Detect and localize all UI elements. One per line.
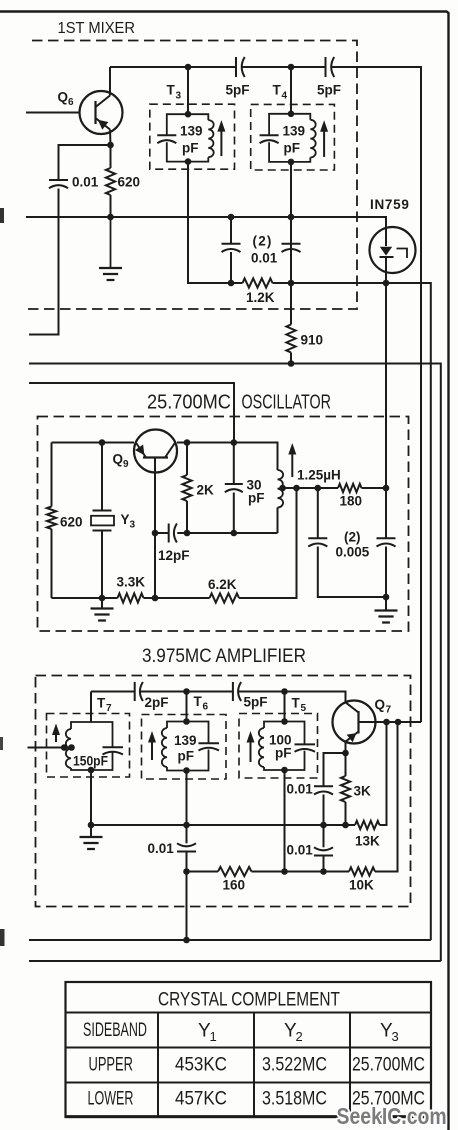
svg-text:3.975MC AMPLIFIER: 3.975MC AMPLIFIER bbox=[142, 644, 306, 666]
node 533 line at base bbox=[152, 530, 159, 537]
transformer T7 tank box bbox=[71, 722, 113, 770]
node 871 rail 0.01 branch bbox=[320, 868, 327, 875]
T4 tank coil bbox=[310, 120, 315, 158]
T6 tuning arrow bbox=[151, 737, 153, 760]
capacitor 0.01 mixer bypass bbox=[59, 145, 111, 180]
svg-text:25.700MC: 25.700MC bbox=[147, 392, 231, 414]
wire 940 bus line bbox=[29, 939, 431, 941]
node top rail T4 bbox=[288, 64, 295, 71]
svg-text:1: 1 bbox=[210, 1029, 217, 1044]
node 940 bus bbox=[183, 937, 190, 944]
node top rail 2K bbox=[184, 439, 191, 446]
wire T5 bottom long branch down bbox=[284, 770, 286, 872]
resistor 1.2K (series in 283 rail) bbox=[243, 278, 273, 287]
wire 825 ground rail bbox=[91, 824, 355, 826]
svg-text:9: 9 bbox=[123, 459, 129, 470]
wire T6 branch down to 940 bus bbox=[186, 872, 188, 941]
capacitor 5pF first (series on top rail) bbox=[236, 57, 245, 77]
svg-text:3: 3 bbox=[176, 91, 182, 102]
page edge artifact 2 bbox=[0, 737, 3, 750]
resistor 620 oscillator bbox=[51, 443, 53, 507]
svg-text:0.005: 0.005 bbox=[336, 545, 370, 560]
node bottom rail crystal/ground bbox=[99, 595, 106, 602]
wire Q7 base line to right rail bbox=[359, 721, 422, 723]
T7 tank capacitor (right edge) bbox=[103, 746, 124, 748]
capacitor (2) 0.01 right bbox=[290, 217, 292, 244]
svg-text:910: 910 bbox=[301, 333, 324, 348]
capacitor 0.01 on T6 branch bbox=[177, 843, 196, 851]
node 283 rail left cap bbox=[228, 280, 235, 287]
capacitor 5pF (series in 691 rail) bbox=[233, 682, 241, 701]
ground amplifier bbox=[90, 825, 92, 837]
node 871 rail T6 branch bbox=[183, 868, 190, 875]
svg-text:0.01: 0.01 bbox=[287, 782, 314, 797]
node 363 rail at 910 bbox=[288, 360, 295, 367]
svg-text:1ST MIXER: 1ST MIXER bbox=[58, 19, 135, 37]
T6 tank capacitor (right edge) bbox=[199, 742, 220, 744]
node base line 10K bbox=[395, 719, 402, 726]
inductor 1.25uH coil bbox=[278, 470, 284, 508]
node 217 rail at 620 bbox=[107, 214, 114, 221]
capacitor 30pF bbox=[233, 443, 235, 485]
wire oscillator top rail bbox=[52, 443, 278, 471]
resistor 13K (series to base) bbox=[355, 821, 380, 829]
wire T3 bottom to 283 rail bbox=[188, 162, 243, 283]
oscillator tuning arrow bbox=[291, 449, 293, 477]
wire 363 horizontal rail full width bbox=[29, 364, 441, 962]
svg-text:Q: Q bbox=[113, 452, 124, 467]
transistor Q9 bbox=[134, 430, 177, 473]
svg-text:(2): (2) bbox=[253, 234, 273, 249]
node 217 rail at T4 line bbox=[288, 214, 295, 221]
node oscillator right ground bbox=[383, 594, 390, 601]
ground oscillator right bbox=[385, 597, 387, 611]
resistor 3K emitter bbox=[345, 753, 347, 776]
svg-text:4: 4 bbox=[282, 91, 288, 102]
node 283 rail right cap and 910 bbox=[288, 280, 295, 287]
transformer T6 dashed box bbox=[142, 715, 227, 780]
wire T4 top feed bbox=[290, 67, 292, 114]
wire T7 bottom to ground rail bbox=[90, 770, 92, 825]
svg-text:pF: pF bbox=[178, 749, 195, 764]
svg-text:150pF: 150pF bbox=[73, 753, 108, 769]
wire Q6 collector to top rail bbox=[109, 67, 111, 96]
svg-text:pF: pF bbox=[284, 141, 301, 156]
wire long vertical from IN759 node to oscillator output bbox=[385, 283, 387, 488]
svg-text:180: 180 bbox=[340, 494, 363, 509]
table column lines bbox=[158, 1013, 350, 1118]
svg-text:3: 3 bbox=[392, 1029, 399, 1044]
svg-text:457KC: 457KC bbox=[175, 1088, 227, 1109]
svg-text:T: T bbox=[292, 696, 301, 711]
svg-text:2: 2 bbox=[296, 1029, 303, 1044]
ground mixer bbox=[110, 217, 112, 268]
node bottom rail base line bbox=[152, 595, 159, 602]
svg-text:5: 5 bbox=[301, 703, 307, 714]
T5 tank coil bbox=[259, 728, 264, 767]
table bottom border emphasis bbox=[66, 1115, 432, 1118]
node 825 rail T6 branch bbox=[183, 822, 190, 829]
svg-text:UPPER: UPPER bbox=[89, 1054, 133, 1075]
node 691 rail T6 bbox=[183, 688, 190, 695]
resistor 10K (series in 871 rail) bbox=[349, 867, 375, 875]
svg-text:T: T bbox=[167, 83, 176, 98]
svg-text:25.700MC: 25.700MC bbox=[352, 1053, 425, 1075]
svg-text:3.522MC: 3.522MC bbox=[262, 1053, 327, 1075]
svg-text:620: 620 bbox=[60, 515, 83, 530]
crystal Y3 bbox=[101, 443, 103, 511]
transistor Q6 bbox=[80, 91, 123, 134]
capacitor 0.01 emitter left bbox=[314, 786, 333, 794]
wire coil tap to 180 bbox=[283, 487, 338, 489]
svg-text:Q: Q bbox=[58, 90, 69, 105]
capacitor 2pF (series in 691 rail) bbox=[135, 682, 143, 701]
T3 tuning arrow bbox=[220, 126, 222, 156]
node 283 rail diode bbox=[383, 280, 390, 287]
T3 tank capacitor 139pF plates bbox=[157, 135, 176, 143]
wire T7 input tap bbox=[28, 747, 72, 749]
wire 217 horizontal rail to diode bbox=[26, 217, 386, 228]
oscillator dashed box bbox=[38, 417, 409, 632]
resistor 6.2K (series in bottom rail) bbox=[210, 593, 240, 602]
svg-text:12pF: 12pF bbox=[158, 548, 190, 563]
node 488 line left 0.005 bbox=[315, 485, 322, 492]
svg-text:IN759: IN759 bbox=[370, 197, 410, 212]
wire T7 top feed to 691 rail bbox=[90, 692, 92, 723]
svg-text:5pF: 5pF bbox=[317, 83, 341, 98]
capacitor (2) 0.01 left bbox=[230, 217, 232, 244]
transistor Q7 bbox=[333, 701, 376, 744]
1ST MIXER dashed box bbox=[27, 41, 357, 310]
node 825 rail 0.01 bbox=[320, 822, 327, 829]
svg-text:0.01: 0.01 bbox=[287, 843, 314, 858]
svg-text:6: 6 bbox=[68, 97, 74, 108]
capacitor 12pF (series in 533 line) bbox=[155, 532, 168, 534]
transformer T4 dashed box bbox=[251, 104, 335, 170]
svg-text:1.2K: 1.2K bbox=[246, 290, 275, 305]
node top rail T3 bbox=[185, 64, 192, 71]
wire T6 top feed bbox=[186, 692, 188, 722]
svg-text:160: 160 bbox=[223, 878, 246, 893]
wire T5 top feed bbox=[284, 692, 286, 722]
wire T4 bottom through 217 rail to 283 rail bbox=[290, 162, 292, 283]
wire 383 stub into oscillator bbox=[29, 383, 234, 443]
svg-text:139: 139 bbox=[180, 124, 203, 139]
svg-text:5pF: 5pF bbox=[244, 695, 268, 710]
svg-text:(2): (2) bbox=[344, 530, 361, 545]
svg-text:620: 620 bbox=[118, 175, 141, 190]
svg-text:T: T bbox=[273, 83, 282, 98]
svg-text:13K: 13K bbox=[355, 834, 380, 849]
transformer T4 tank box bbox=[269, 114, 310, 162]
svg-text:OSCILLATOR: OSCILLATOR bbox=[242, 390, 331, 413]
svg-text:SeekIC.com: SeekIC.com bbox=[337, 1103, 447, 1129]
node 871 rail T5 branch bbox=[281, 868, 288, 875]
svg-text:3K: 3K bbox=[354, 784, 372, 799]
capacitor (2) 0.005 left bbox=[317, 488, 319, 538]
T7 tuning arrow bbox=[55, 730, 57, 743]
table row lines bbox=[66, 1013, 432, 1083]
T7 tank coil bbox=[66, 729, 71, 768]
svg-text:0.01: 0.01 bbox=[72, 175, 99, 190]
wire 871 rail bbox=[187, 722, 398, 872]
svg-text:5pF: 5pF bbox=[226, 83, 250, 98]
svg-text:139: 139 bbox=[174, 733, 197, 748]
transformer T7 dashed box bbox=[47, 714, 130, 778]
transformer T5 tank box bbox=[264, 722, 305, 771]
wire 961 bus line bbox=[29, 960, 441, 962]
wire Q9 base down to bottom rail bbox=[154, 533, 156, 598]
resistor 3.3K (series in bottom rail) bbox=[118, 593, 144, 602]
svg-text:7: 7 bbox=[386, 705, 392, 716]
node top rail crystal branch bbox=[99, 439, 106, 446]
transformer T6 tank box bbox=[167, 722, 209, 771]
T4 tank capacitor 139pF plates bbox=[260, 135, 279, 143]
svg-text:0.01: 0.01 bbox=[148, 841, 175, 856]
oscillator bottom rail left segment bbox=[52, 597, 297, 599]
node tap line down-wire bbox=[293, 485, 300, 492]
svg-text:CRYSTAL COMPLEMENT: CRYSTAL COMPLEMENT bbox=[158, 988, 340, 1010]
node base line 13K bbox=[383, 719, 390, 726]
wire Q7 emitter node bbox=[342, 750, 349, 757]
wire top rail with corner down right side to Q7 base bbox=[110, 67, 421, 722]
svg-text:3: 3 bbox=[130, 520, 136, 531]
wire T3 top feed bbox=[187, 67, 189, 114]
capacitor 5pF second (series on top rail) bbox=[326, 57, 335, 77]
wire tap down to bottom rail corner bbox=[239, 488, 297, 598]
T3 tank coil bbox=[208, 120, 213, 157]
resistor 160 (series in 871 rail) bbox=[218, 867, 252, 876]
resistor 180 (series in 488 line) bbox=[338, 484, 362, 492]
page edge artifact 3 bbox=[0, 929, 5, 946]
resistor 910 to 363 rail bbox=[290, 283, 292, 325]
svg-text:7: 7 bbox=[106, 703, 112, 714]
node top rail 30pF and mixer feed bbox=[231, 439, 238, 446]
transformer T3 tank box bbox=[167, 114, 209, 161]
node 825 rail 3K bbox=[342, 822, 349, 829]
transformer T3 dashed box bbox=[150, 104, 235, 169]
transformer T5 dashed box bbox=[239, 714, 318, 779]
wire Q6 base input stub bbox=[26, 112, 80, 114]
amplifier dashed box bbox=[36, 676, 411, 907]
svg-text:1.25µH: 1.25µH bbox=[297, 468, 341, 483]
node coil tap bbox=[279, 485, 286, 492]
node Q6 emitter bbox=[107, 142, 114, 149]
svg-text:SIDEBAND: SIDEBAND bbox=[83, 1019, 147, 1040]
T5 tank capacitor (right edge) bbox=[295, 743, 316, 745]
node 533 line at 30pF bbox=[231, 530, 238, 537]
svg-text:6.2K: 6.2K bbox=[208, 577, 237, 592]
svg-text:2K: 2K bbox=[197, 483, 215, 498]
node 691 rail T5 bbox=[281, 688, 288, 695]
svg-text:pF: pF bbox=[275, 746, 292, 761]
wire 283 rail right portion down right side bbox=[273, 283, 431, 940]
svg-text:0.01: 0.01 bbox=[251, 251, 278, 266]
wire T6 bottom long branch down bbox=[186, 771, 188, 844]
svg-text:3.518MC: 3.518MC bbox=[262, 1087, 327, 1109]
node 488 line right end bbox=[383, 485, 390, 492]
svg-text:Q: Q bbox=[375, 697, 386, 712]
svg-text:139: 139 bbox=[283, 124, 306, 139]
svg-text:2pF: 2pF bbox=[145, 695, 169, 710]
svg-text:6: 6 bbox=[203, 702, 209, 713]
node 217 rail at first 0.01 cap bbox=[228, 214, 235, 221]
T4 tuning arrow bbox=[323, 126, 325, 157]
node 825 rail T7/ground bbox=[88, 822, 95, 829]
svg-text:Y: Y bbox=[121, 512, 130, 527]
svg-text:453KC: 453KC bbox=[175, 1054, 227, 1075]
capacitor (2) 0.005 right bbox=[385, 488, 387, 538]
wire 691 horizontal rail bbox=[91, 692, 346, 703]
svg-text:pF: pF bbox=[248, 491, 265, 506]
svg-text:pF: pF bbox=[182, 141, 199, 156]
capacitor 0.01 on emitter branch lower bbox=[323, 825, 325, 847]
svg-text:T: T bbox=[97, 696, 106, 711]
crystal complement table frame bbox=[66, 982, 432, 1117]
resistor 2K bbox=[186, 443, 188, 476]
svg-text:LOWER: LOWER bbox=[88, 1088, 134, 1109]
resistor 620 mixer emitter bbox=[110, 145, 112, 168]
svg-text:3.3K: 3.3K bbox=[117, 575, 146, 590]
ground oscillator left bbox=[101, 598, 103, 609]
T5 tuning arrow bbox=[250, 737, 252, 762]
page edge artifact 1 bbox=[0, 208, 4, 223]
zener diode IN759 bbox=[370, 227, 416, 273]
svg-text:T: T bbox=[194, 694, 203, 709]
svg-text:10K: 10K bbox=[349, 878, 374, 893]
T6 tank coil bbox=[162, 728, 167, 767]
node 533 line at 2K bbox=[184, 530, 191, 537]
